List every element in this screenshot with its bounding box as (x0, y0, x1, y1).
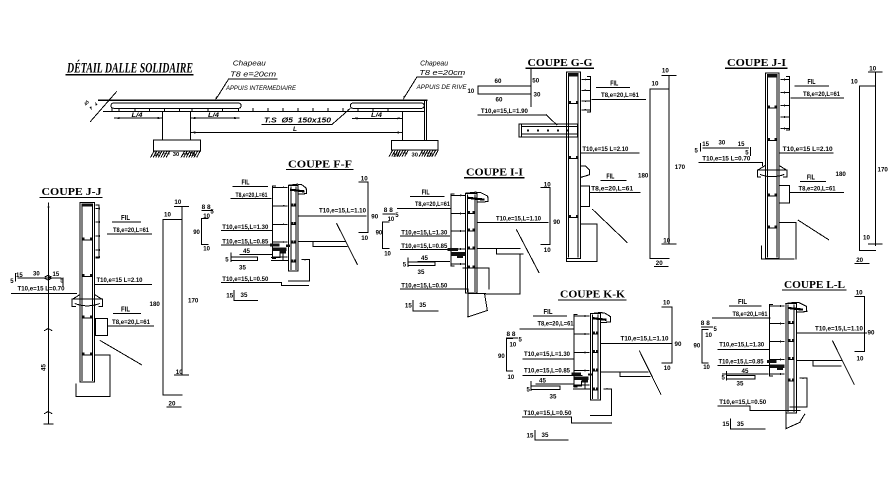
coupe G-G top bar detail (478, 86, 531, 94)
svg-text:T8,e=20,L=61: T8,e=20,L=61 (799, 186, 836, 193)
svg-text:T10,e=15,L=1.10: T10,e=15,L=1.10 (621, 336, 669, 343)
coupe F-F junction left substep (279, 253, 281, 258)
coupe G-G bottom step (580, 223, 597, 225)
coupe I-I cap (466, 192, 489, 202)
svg-text:10: 10 (174, 199, 181, 206)
svg-text:60: 60 (495, 78, 502, 85)
coupe L-L left stirrup bracket (770, 305, 785, 377)
coupe G-G ground diagonal (593, 209, 628, 242)
svg-text:T10,e=15 L=2.10: T10,e=15 L=2.10 (97, 277, 143, 284)
svg-text:35: 35 (241, 292, 248, 299)
svg-text:35: 35 (542, 432, 549, 439)
svg-text:90: 90 (553, 219, 560, 226)
svg-text:T8,e=20,L=61: T8,e=20,L=61 (112, 319, 150, 326)
coupe I-I bottom trapezoid (467, 294, 469, 317)
svg-text:10: 10 (468, 89, 475, 95)
svg-text:35: 35 (239, 265, 246, 272)
svg-text:10: 10 (705, 333, 712, 339)
svg-text:L/4: L/4 (208, 112, 219, 119)
dimension L/4 right of intermediate support (190, 117, 239, 119)
svg-text:170: 170 (188, 297, 199, 304)
coupe G-G wall (566, 72, 580, 259)
svg-text:90: 90 (376, 231, 383, 237)
edge support footing (392, 140, 438, 150)
coupe J-I outer dim line (874, 72, 876, 245)
coupe L-L bottom trapezoid (785, 413, 787, 429)
svg-text:T10,e=15 L=0.70: T10,e=15 L=0.70 (18, 286, 65, 293)
coupe J-J console (72, 295, 102, 307)
svg-text:T8,e=20,L=61: T8,e=20,L=61 (236, 192, 268, 199)
svg-text:T10,e=15 L=2.10: T10,e=15 L=2.10 (783, 146, 833, 153)
svg-text:L: L (293, 126, 297, 133)
svg-text:DÉTAIL DALLE SOLIDAIRE: DÉTAIL DALLE SOLIDAIRE (66, 60, 193, 77)
coupe G-G outer dim line (668, 76, 670, 245)
svg-text:10: 10 (663, 238, 670, 245)
svg-text:COUPE G-G: COUPE G-G (528, 57, 593, 69)
svg-text:T10,e=15,L=1.10: T10,e=15,L=1.10 (496, 215, 541, 222)
svg-text:10: 10 (361, 235, 368, 242)
svg-text:FIL: FIL (606, 174, 615, 181)
coupe F-F right lower outline (302, 259, 309, 261)
svg-text:170: 170 (675, 164, 686, 171)
coupe J-J wall (80, 202, 95, 381)
intermediate support footing (153, 140, 200, 151)
edge footing dim 10 30 10 (404, 152, 408, 154)
coupe I-I under junction line (463, 267, 489, 269)
svg-text:90: 90 (868, 329, 875, 336)
coupe K-K junction blob (572, 372, 582, 375)
svg-text:10: 10 (384, 252, 391, 258)
svg-text:10: 10 (426, 153, 432, 159)
svg-text:10: 10 (203, 247, 210, 253)
svg-text:50: 50 (532, 78, 539, 85)
coupe J-J inner dim line (162, 219, 164, 395)
left edge thickness mark (96, 102, 98, 106)
svg-text:FIL: FIL (738, 299, 748, 306)
svg-text:10: 10 (508, 375, 515, 381)
svg-text:T10,e=15,L=1.10: T10,e=15,L=1.10 (319, 207, 366, 214)
svg-text:35: 35 (419, 302, 426, 309)
coupe G-G anchor block (580, 186, 589, 206)
svg-text:10: 10 (652, 81, 659, 88)
svg-text:8 8: 8 8 (701, 321, 711, 327)
coupe J-I inner dim line (859, 86, 861, 251)
svg-text:10: 10 (164, 211, 171, 218)
svg-text:L/4: L/4 (371, 112, 382, 119)
coupe I-I left stirrup bracket (451, 194, 464, 266)
svg-text:COUPE L-L: COUPE L-L (784, 279, 845, 291)
svg-text:FIL: FIL (242, 180, 251, 187)
svg-text:10: 10 (662, 67, 669, 74)
svg-text:8 8: 8 8 (384, 208, 394, 214)
svg-text:T10,e=15,L=1.30: T10,e=15,L=1.30 (401, 230, 447, 237)
coupe L-L ground diagonal (833, 341, 855, 384)
mesh ticks T.S (111, 108, 113, 111)
coupe J-I wall (765, 73, 779, 259)
coupe L-L slab right with step (796, 360, 842, 362)
coupe J-I ground diagonal (798, 220, 828, 240)
coupe G-G inner dim line (649, 89, 651, 259)
coupe K-K ground diagonal (640, 351, 661, 394)
svg-text:T8,e=20,L=61: T8,e=20,L=61 (113, 227, 149, 234)
svg-text:T10,e=15,L=0.85: T10,e=15,L=0.85 (719, 359, 764, 366)
svg-text:30: 30 (412, 153, 418, 159)
svg-text:35: 35 (737, 421, 744, 428)
intermediate support wall (162, 111, 164, 140)
svg-text:30: 30 (534, 92, 541, 99)
svg-text:10: 10 (863, 235, 870, 242)
svg-text:T10,e=15 L=0.70: T10,e=15 L=0.70 (702, 156, 750, 163)
svg-text:8 8: 8 8 (507, 332, 517, 338)
svg-text:APPUIS DE RIVE: APPUIS DE RIVE (416, 84, 468, 91)
dimension L between supports (190, 132, 402, 134)
svg-text:L/4: L/4 (132, 112, 143, 119)
slab bottom line (104, 110, 425, 112)
svg-text:FIL: FIL (610, 81, 619, 88)
svg-text:T8,e=20,L=61: T8,e=20,L=61 (733, 311, 768, 318)
svg-text:45: 45 (539, 377, 546, 384)
svg-text:35: 35 (418, 269, 425, 276)
coupe J-I bottom step (779, 221, 796, 223)
svg-text:COUPE F-F: COUPE F-F (288, 158, 352, 170)
svg-text:COUPE I-I: COUPE I-I (466, 167, 523, 179)
coupe K-K left stirrup bracket (574, 315, 589, 387)
coupe K-K slab right with step (600, 371, 648, 373)
svg-text:60: 60 (496, 96, 503, 103)
svg-text:180: 180 (638, 173, 649, 180)
svg-text:FIL: FIL (422, 189, 431, 196)
svg-text:T8,e=20,L=61: T8,e=20,L=61 (415, 201, 450, 208)
coupe L-L wall (786, 304, 797, 414)
svg-text:90: 90 (498, 354, 505, 360)
svg-text:10: 10 (664, 365, 671, 372)
dimension L/4 left of intermediate support (115, 117, 163, 119)
coupe K-K junction left substep (581, 381, 583, 386)
coupe K-K right lower outline (604, 388, 612, 390)
coupe F-F cap (289, 184, 307, 194)
svg-text:10: 10 (857, 355, 864, 362)
svg-text:10: 10 (703, 365, 710, 371)
coupe J-J top stirrup bracket (96, 205, 100, 258)
coupe F-F junction blob (270, 244, 280, 247)
svg-text:15: 15 (702, 142, 709, 148)
svg-text:Chapeau: Chapeau (420, 60, 448, 67)
svg-text:T10,e=15,L=0.85: T10,e=15,L=0.85 (524, 367, 570, 374)
svg-text:FIL: FIL (121, 215, 131, 222)
coupe F-F wall (289, 185, 298, 270)
coupe J-J outer dim line (181, 207, 183, 376)
slab top line (99, 99, 427, 101)
svg-text:T10,e=15,L=1.30: T10,e=15,L=1.30 (524, 351, 570, 358)
svg-text:T8,e=20,L=61: T8,e=20,L=61 (538, 320, 574, 327)
coupe G-G corbel (580, 166, 589, 178)
svg-text:10: 10 (510, 342, 517, 348)
svg-text:T10,e=15 L=2.10: T10,e=15 L=2.10 (582, 146, 628, 153)
svg-text:FIL: FIL (121, 307, 131, 314)
svg-text:30: 30 (719, 141, 726, 147)
svg-text:180: 180 (150, 301, 161, 308)
svg-text:APPUIS INTERMEDIAIRE: APPUIS INTERMEDIAIRE (225, 85, 296, 92)
dimension L/4 at edge support (353, 117, 403, 119)
coupe J-I anchor block (779, 186, 790, 203)
svg-text:COUPE K-K: COUPE K-K (560, 289, 625, 301)
svg-text:COUPE J-I: COUPE J-I (727, 57, 786, 69)
svg-text:35: 35 (737, 381, 744, 388)
chapeau bar intermediate support (111, 103, 241, 108)
slab left diagonal cut (91, 92, 117, 122)
svg-text:T10,e=15,L=0.50: T10,e=15,L=0.50 (524, 410, 572, 417)
svg-text:90: 90 (193, 230, 200, 236)
svg-text:10: 10 (869, 65, 876, 72)
svg-text:45: 45 (41, 364, 48, 371)
svg-text:T.S Ø5 150x150: T.S Ø5 150x150 (264, 115, 331, 124)
footing dim 10 30 10 (166, 153, 170, 155)
svg-text:10: 10 (856, 289, 863, 296)
coupe F-F left stirrup bracket (272, 186, 287, 258)
svg-text:90: 90 (675, 341, 682, 348)
coupe J-I top stirrup bracket (781, 77, 790, 131)
slab right edge (423, 100, 425, 140)
coupe K-K wall (590, 314, 600, 400)
svg-text:10: 10 (176, 369, 183, 376)
coupe J-J bottom step (96, 354, 111, 356)
svg-text:10: 10 (189, 152, 195, 158)
leader to slab rive (404, 77, 417, 98)
svg-text:COUPE J-J: COUPE J-J (42, 186, 103, 198)
coupe K-K cap (590, 313, 610, 323)
coupe G-G top stirrup bracket (582, 77, 591, 113)
coupe J-I console (758, 165, 787, 177)
svg-text:FIL: FIL (808, 79, 817, 86)
svg-text:15: 15 (405, 303, 412, 310)
svg-text:T8,e=20,L=61: T8,e=20,L=61 (803, 91, 840, 98)
coupe I-I ground diagonal (517, 230, 539, 273)
edge footing hatch (389, 150, 392, 156)
coupe L-L junction blob (767, 360, 777, 363)
svg-text:90: 90 (694, 343, 701, 349)
coupe J-J anchor block (96, 319, 108, 336)
svg-text:T10,e=15,L=1.30: T10,e=15,L=1.30 (719, 342, 764, 349)
footing hatch left (151, 151, 154, 157)
svg-text:15: 15 (722, 421, 729, 428)
coupe J-J ground diagonal (100, 341, 141, 365)
svg-text:FIL: FIL (544, 309, 554, 316)
coupe F-F ground diagonal (337, 224, 358, 265)
coupe I-I junction blob (448, 248, 459, 251)
coupe I-I slab right with step (477, 247, 520, 249)
chapeau bar edge support (350, 103, 424, 108)
svg-text:T8,e=20,L=61: T8,e=20,L=61 (601, 92, 639, 99)
svg-text:T10,e=15,L=1.10: T10,e=15,L=1.10 (815, 326, 863, 333)
coupe L-L cap (786, 302, 807, 312)
svg-text:15: 15 (226, 293, 233, 300)
svg-text:15: 15 (527, 432, 534, 439)
svg-text:Chapeau: Chapeau (233, 61, 266, 68)
svg-text:T10,e=15,L=1.30: T10,e=15,L=1.30 (222, 224, 268, 231)
svg-text:30: 30 (173, 152, 179, 158)
edge support wall (401, 111, 403, 140)
svg-text:90: 90 (371, 213, 378, 220)
svg-text:T8,e=20,L=61: T8,e=20,L=61 (591, 185, 633, 192)
coupe G-G slab from left (519, 124, 578, 137)
svg-text:T10,e=15,L=0.50: T10,e=15,L=0.50 (401, 282, 447, 289)
svg-text:35: 35 (550, 394, 557, 401)
coupe J-J left long dim line (48, 203, 50, 424)
svg-text:10: 10 (663, 299, 670, 306)
svg-text:15: 15 (738, 142, 745, 148)
svg-text:10: 10 (154, 152, 160, 158)
leader to slab intermediate (217, 79, 229, 98)
svg-text:T10,e=15,L=1.90: T10,e=15,L=1.90 (481, 108, 528, 115)
svg-text:10: 10 (851, 79, 858, 86)
coupe F-F slab right with step (298, 241, 345, 243)
svg-text:FIL: FIL (807, 175, 816, 182)
svg-text:180: 180 (836, 171, 847, 178)
svg-text:T10,e=15,L=0.50: T10,e=15,L=0.50 (719, 399, 766, 406)
coupe I-I wall (466, 193, 478, 293)
coupe L-L right lower outline (806, 378, 808, 407)
svg-text:10: 10 (544, 247, 551, 254)
svg-text:T8 e=20cm: T8 e=20cm (230, 71, 276, 78)
svg-text:10: 10 (393, 153, 399, 159)
svg-text:T8 e=20cm: T8 e=20cm (419, 70, 465, 77)
svg-text:170: 170 (878, 166, 889, 173)
svg-text:30: 30 (33, 272, 40, 278)
